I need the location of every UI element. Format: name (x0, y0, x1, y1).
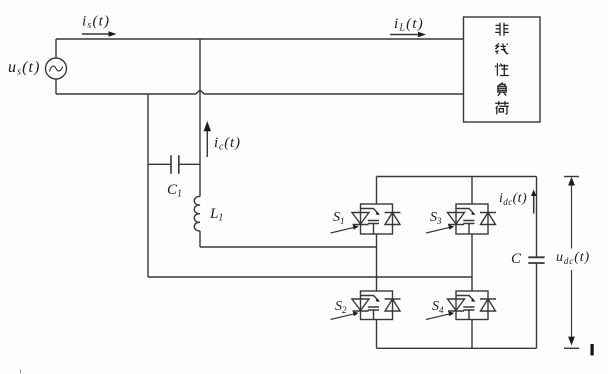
wire below L1 (199, 231, 201, 247)
wire left branch to right bridge leg (148, 276, 472, 278)
svg-text:S2: S2 (335, 299, 347, 315)
bridge right leg (471, 177, 473, 349)
capacitor C plates (528, 257, 544, 263)
arrow i_dc (533, 196, 535, 214)
svg-text:S1: S1 (333, 210, 345, 226)
svg-text:us(t): us(t) (8, 59, 41, 78)
svg-text:L1: L1 (209, 206, 223, 224)
faint artifact bottom left (20, 370, 22, 374)
wire left branch x=148 vertical (147, 94, 149, 277)
capacitor C1 left lead (148, 163, 171, 165)
wire bottom horizontal with hop at x=200 (56, 91, 464, 94)
black mark artifact bottom right (591, 344, 594, 356)
wire source bottom lead (55, 79, 57, 94)
arrow i_L (390, 34, 418, 36)
load text 线 (495, 43, 508, 54)
load text 性 (495, 63, 509, 76)
arrow i_s (82, 33, 109, 35)
svg-text:idc(t): idc(t) (499, 191, 527, 207)
load text 荷 (495, 101, 509, 114)
svg-text:is(t): is(t) (82, 14, 110, 32)
dimension line u_dc top tick (564, 176, 579, 178)
switch S1 (331, 204, 401, 234)
svg-text:udc(t): udc(t) (556, 250, 590, 266)
capacitor C1 right lead (179, 163, 200, 165)
load text 负 (498, 83, 506, 96)
arrow i_c (206, 131, 208, 157)
dimension arrow down (571, 270, 573, 338)
svg-text:iL(t): iL(t) (394, 16, 424, 34)
voltage source sine glyph (50, 66, 63, 71)
svg-text:ic(t): ic(t) (214, 135, 241, 153)
dimension arrow up (571, 185, 573, 249)
wire DC link bottom (536, 263, 538, 348)
svg-text:C1: C1 (167, 182, 182, 200)
dimension line u_dc bottom tick (564, 347, 579, 349)
wire top horizontal (56, 38, 464, 40)
bridge left leg (376, 177, 378, 349)
nonlinear load box (464, 17, 541, 122)
switch S2 (331, 291, 401, 320)
voltage source U_s circle (46, 58, 67, 79)
wire source top lead (55, 39, 57, 58)
load text 非 (495, 23, 509, 36)
wire APF vertical branch x=200 (199, 39, 201, 197)
svg-text:S4: S4 (432, 299, 444, 315)
switch S3 (426, 204, 496, 234)
wire DC link top (536, 177, 538, 258)
bridge bottom rail (377, 347, 537, 349)
bridge top rail (377, 176, 537, 178)
wire L1 to left bridge leg (200, 246, 377, 248)
switch S4 (426, 291, 496, 320)
inductor L1 (194, 196, 200, 231)
svg-text:S3: S3 (430, 210, 442, 226)
capacitor C1 plates (171, 155, 179, 174)
svg-text:C: C (511, 251, 522, 267)
